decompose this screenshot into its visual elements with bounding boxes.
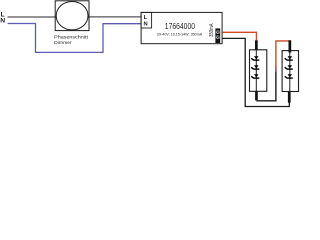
svg-text:N: N	[144, 21, 148, 27]
wire - (black) driver to bottom bus to LED module 2	[222, 38, 289, 106]
LED D3	[251, 74, 259, 79]
dimmer rotary knob circle	[56, 2, 88, 30]
LED module 1 box	[250, 50, 267, 92]
LED module 2 bottom terminal pin	[288, 92, 291, 103]
wire series link module1- to module2+ (black lower part)	[256, 72, 276, 101]
wire series link transition segment	[275, 66, 277, 72]
LED module 2 internal wire	[289, 51, 291, 92]
LED module 1 bottom terminal pin	[255, 91, 258, 100]
driver input terminal block	[141, 12, 152, 28]
wire series link module2+ (red upper part)	[276, 41, 289, 67]
LED D4	[285, 56, 293, 61]
LED D1	[251, 56, 259, 61]
svg-text:17664000: 17664000	[165, 21, 195, 31]
LED driver U1 box	[141, 12, 222, 43]
svg-text:N: N	[0, 18, 5, 25]
svg-text:350mA: 350mA	[209, 23, 215, 37]
wire + (red) driver to LED module 1	[222, 32, 256, 41]
LED module 1 internal wire	[255, 50, 257, 91]
wire N from input under dimmer to driver terminal N	[8, 24, 141, 53]
LED module 2 top terminal pin	[289, 40, 292, 52]
LED D6	[285, 74, 293, 79]
wire L from input to dimmer	[8, 16, 57, 18]
svg-text:29-40V; 10,15-14W; 350mA: 29-40V; 10,15-14W; 350mA	[157, 32, 203, 37]
svg-text:Dimmer: Dimmer	[54, 40, 72, 46]
LED module 1 top terminal pin	[255, 40, 258, 50]
LED module 2 box	[282, 51, 298, 92]
output screw terminal +	[216, 31, 219, 34]
svg-text:L: L	[144, 15, 148, 21]
LED D5	[285, 65, 293, 70]
output screw terminal -	[216, 36, 219, 39]
svg-text:Phasenschnitt: Phasenschnitt	[54, 35, 88, 41]
wire L from dimmer to driver terminal L	[88, 16, 141, 18]
LED D2	[251, 65, 259, 70]
dimmer box	[55, 1, 89, 31]
driver output terminal block (black)	[215, 28, 220, 43]
